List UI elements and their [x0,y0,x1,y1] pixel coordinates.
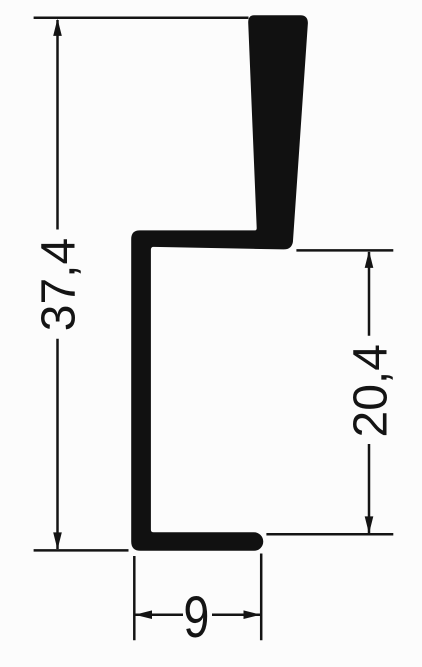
dimension label 9 [183,585,209,650]
dimension line 9 right segment [212,613,260,616]
profile cross-section body [131,15,308,551]
arrowhead down (37,4 bottom) [53,532,62,549]
extension line left vertical (for 9) [133,556,136,640]
extension line right vertical (for 9) [260,554,263,641]
arrowhead up (20,4 top) [365,251,374,268]
dimension line 37,4 lower segment [56,339,59,549]
arrowhead left (9) [135,610,152,619]
svg-text:37,4: 37,4 [33,238,86,331]
extension line right-top (for 20,4) [296,249,393,252]
arrowhead up (37,4 top) [53,19,62,36]
extension line right-bottom (for 20,4) [266,533,393,536]
dimension line 9 left segment [136,613,184,616]
dimension label 20,4 [344,344,397,437]
arrowhead down (20,4 bottom) [365,516,374,533]
extension line top (for 37,4) [34,17,249,20]
dimension line 37,4 upper segment [56,20,59,230]
arrowhead right (9) [244,610,261,619]
extension line bottom-left (for 37,4) [34,549,129,552]
dimension label 37,4 [33,238,86,331]
dimension line 20,4 lower segment [368,444,371,533]
svg-text:9: 9 [183,585,209,650]
svg-text:20,4: 20,4 [344,344,397,437]
dimension line 20,4 upper segment [368,252,371,336]
